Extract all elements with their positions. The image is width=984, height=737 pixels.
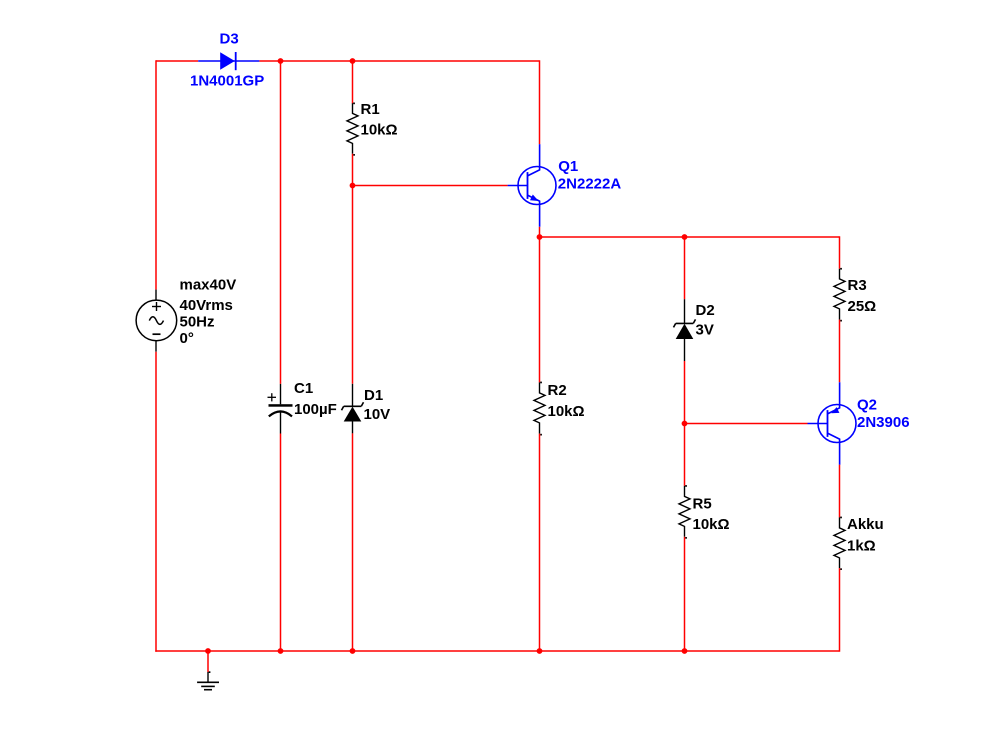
wire R2 branch upper xyxy=(539,237,541,382)
wire Q2 collector lower xyxy=(839,465,841,518)
transistor Q1 xyxy=(508,144,556,227)
svg-text:D1: D1 xyxy=(364,387,383,404)
svg-text:10kΩ: 10kΩ xyxy=(361,122,398,139)
wire left vertical lower xyxy=(155,352,157,652)
wire top rail right segment xyxy=(259,60,539,62)
svg-text:Akku: Akku xyxy=(847,516,884,533)
wire D2 to Q2 base junction xyxy=(684,361,686,424)
diode D3 xyxy=(198,52,259,70)
wire Q2 base horizontal xyxy=(685,423,808,425)
svg-text:50Hz: 50Hz xyxy=(180,314,215,331)
wire R1 to D1 xyxy=(352,154,354,384)
svg-text:2N2222A: 2N2222A xyxy=(558,175,622,192)
svg-text:2N3906: 2N3906 xyxy=(857,414,910,431)
junction mid rail D2 xyxy=(682,234,688,240)
svg-text:3V: 3V xyxy=(696,322,714,339)
junction Q2 base D2 xyxy=(682,421,688,427)
resistor R2 xyxy=(534,382,545,433)
svg-text:max40V: max40V xyxy=(180,276,237,293)
wire D1 branch lower xyxy=(352,433,354,651)
svg-text:1kΩ: 1kΩ xyxy=(847,538,876,555)
zener diode D1 xyxy=(342,384,364,434)
junction bottom rail R5 xyxy=(682,648,688,654)
svg-text:R3: R3 xyxy=(848,277,867,294)
wire bottom rail xyxy=(155,650,839,652)
svg-text:100µF: 100µF xyxy=(294,401,337,418)
wire R3 to Q2 xyxy=(839,320,841,383)
wire top rail left segment xyxy=(156,60,198,62)
wire Q2 base junction to R5 xyxy=(684,424,686,486)
svg-text:Q1: Q1 xyxy=(558,158,578,175)
junction top rail C1 xyxy=(278,58,284,64)
wire R2 branch lower xyxy=(539,434,541,651)
junction top rail R1 xyxy=(350,58,356,64)
svg-text:D2: D2 xyxy=(696,302,715,319)
wire R3 branch upper xyxy=(839,236,841,268)
svg-text:Q2: Q2 xyxy=(857,396,877,413)
svg-text:0°: 0° xyxy=(180,330,194,347)
svg-text:40Vrms: 40Vrms xyxy=(180,297,233,314)
junction mid rail Q1 emitter xyxy=(537,234,543,240)
resistor R1 xyxy=(347,103,358,154)
resistor Akku xyxy=(834,517,845,568)
wire Q1 base horizontal xyxy=(353,185,508,187)
svg-text:R2: R2 xyxy=(548,382,567,399)
svg-text:25Ω: 25Ω xyxy=(848,298,877,315)
wire Q1 collector upper xyxy=(539,60,541,144)
wire R5 branch lower xyxy=(684,537,686,651)
junction bottom rail ground xyxy=(205,648,211,654)
wire Q1 emitter lower xyxy=(539,227,541,237)
svg-text:10kΩ: 10kΩ xyxy=(693,516,730,533)
zener diode D2 xyxy=(674,299,696,361)
wire R1 branch upper xyxy=(352,61,354,103)
svg-text:R1: R1 xyxy=(361,101,380,118)
resistor R5 xyxy=(679,486,690,537)
capacitor C1 xyxy=(268,384,293,434)
junction Q1 base R1 xyxy=(350,183,356,189)
svg-text:10V: 10V xyxy=(364,406,391,423)
AC source V1 xyxy=(136,290,177,352)
svg-text:10kΩ: 10kΩ xyxy=(548,403,585,420)
wire D2 branch upper xyxy=(684,237,686,299)
svg-text:C1: C1 xyxy=(294,380,313,397)
junction bottom rail C1 xyxy=(278,648,284,654)
svg-text:R5: R5 xyxy=(693,495,712,512)
svg-text:D3: D3 xyxy=(220,31,239,48)
svg-text:1N4001GP: 1N4001GP xyxy=(190,72,264,89)
junction bottom rail R2 xyxy=(537,648,543,654)
junction bottom rail D1 xyxy=(350,648,356,654)
ground xyxy=(197,651,219,690)
wire left vertical upper xyxy=(155,60,157,289)
transistor Q2 xyxy=(808,382,857,465)
wire C1 branch lower xyxy=(280,434,282,652)
resistor R3 xyxy=(834,269,845,320)
wire C1 branch upper xyxy=(280,61,282,384)
wire Akku branch lower xyxy=(839,568,841,652)
wire mid rail xyxy=(540,236,840,238)
